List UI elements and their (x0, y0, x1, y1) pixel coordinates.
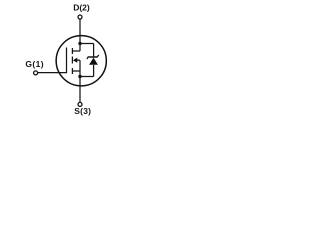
wire source vertical (79, 60, 81, 102)
gate bar (66, 48, 68, 74)
wire diode anode vertical (93, 65, 95, 77)
body diode D1 triangle (anode, pointing up) (89, 58, 98, 65)
wire drain vertical (79, 19, 81, 51)
wire drain-to-channel top stub (72, 50, 80, 52)
terminal S (78, 102, 82, 106)
junction dot drain/diode (78, 42, 81, 45)
channel dash bottom (71, 68, 73, 74)
terminal G (34, 71, 38, 75)
terminal D (78, 15, 82, 19)
svg-text:G(1): G(1) (25, 59, 44, 69)
wire diode bottom rail (80, 76, 94, 78)
body diode D1 zener cathode bar (87, 55, 99, 59)
channel dash top (71, 48, 73, 54)
substrate arrow (points to channel) (73, 58, 77, 63)
wire gate horizontal (38, 72, 67, 74)
wire diode cathode vertical (93, 44, 95, 58)
wire channel-bottom stub (73, 70, 80, 72)
wire arrow-to-source stub (77, 59, 80, 61)
svg-text:S(3): S(3) (74, 106, 91, 116)
transistor Q1 body circle (56, 36, 106, 86)
junction dot source/diode (78, 75, 81, 78)
channel dash middle (71, 57, 73, 64)
wire diode top rail (80, 43, 94, 45)
svg-text:D(2): D(2) (73, 3, 90, 13)
